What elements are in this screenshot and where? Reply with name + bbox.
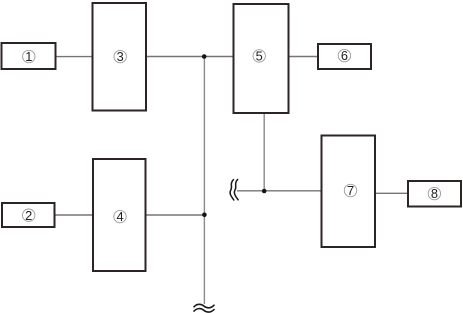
svg-text:2: 2	[25, 208, 32, 223]
block 4	[93, 159, 146, 271]
wire from block 5 to block 6	[289, 56, 318, 58]
block 6	[318, 44, 371, 69]
node B junction dot	[262, 189, 267, 194]
wire from block 2 to block 4	[54, 214, 94, 216]
block 8	[408, 181, 461, 207]
wire break symbol at bottom of vertical bus	[194, 304, 214, 312]
main vertical bus wire	[203, 57, 205, 305]
block 2	[2, 203, 55, 227]
svg-text:4: 4	[116, 209, 123, 224]
svg-text:6: 6	[341, 48, 348, 63]
svg-text:1: 1	[25, 49, 32, 64]
block 1	[2, 43, 56, 69]
svg-text:7: 7	[347, 183, 354, 198]
wire from block 4 to node C	[146, 214, 205, 216]
wire from block 7 to block 8	[375, 192, 408, 194]
wire from break to block 7 through node B	[237, 190, 322, 192]
svg-text:5: 5	[256, 49, 263, 64]
svg-text:8: 8	[431, 186, 438, 201]
block 5	[234, 4, 289, 113]
svg-text:3: 3	[117, 49, 124, 64]
wire break symbol left of node B	[230, 179, 238, 200]
wire from block 3 to block 5 through node	[146, 56, 234, 58]
wire from block 5 bottom to node B	[263, 113, 265, 191]
block 7	[322, 136, 376, 248]
node C junction dot	[202, 213, 207, 218]
wire from block 1 to block 3	[56, 56, 93, 58]
block 3	[93, 3, 147, 111]
node A junction dot	[202, 54, 207, 59]
